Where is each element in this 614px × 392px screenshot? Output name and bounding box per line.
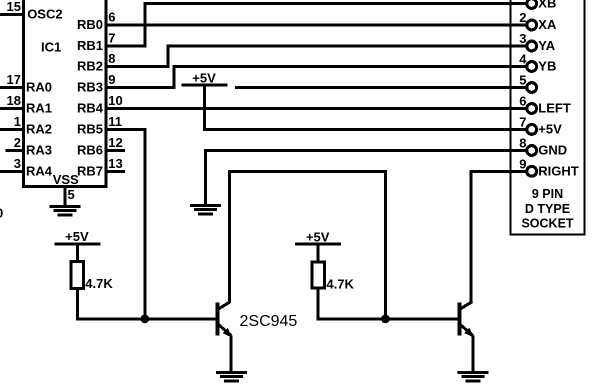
wire Q2 emitter lead xyxy=(471,336,474,371)
svg-text:RB3: RB3 xyxy=(77,80,103,95)
wire pin 17 RA0 xyxy=(0,86,24,89)
wire pin 1 RA2 xyxy=(0,128,24,131)
svg-text:+5V: +5V xyxy=(538,122,562,137)
power +5V top supply xyxy=(182,70,228,86)
svg-text:RB2: RB2 xyxy=(77,59,103,74)
ground VSS xyxy=(50,205,81,216)
wire Q2 base run xyxy=(317,317,458,320)
wire RB2 stub xyxy=(106,65,170,68)
svg-text:9 PIN: 9 PIN xyxy=(532,187,563,201)
svg-text:2SC945: 2SC945 xyxy=(240,313,298,330)
wire R2 bottom lead xyxy=(317,288,320,320)
svg-text:XA: XA xyxy=(538,17,557,32)
resistor R2 4.7K xyxy=(312,262,324,288)
svg-text:4.7K: 4.7K xyxy=(85,276,113,291)
wire to socket pin5 (open end) xyxy=(235,86,527,89)
svg-text:RB7: RB7 xyxy=(77,164,103,179)
wire RB1 to socket pin1 XB (top run) xyxy=(145,2,527,5)
svg-text:RA4: RA4 xyxy=(26,164,53,179)
ground mid xyxy=(190,204,221,215)
svg-text:D TYPE: D TYPE xyxy=(525,202,570,216)
wire RB3 stub xyxy=(106,86,176,89)
svg-text:RB6: RB6 xyxy=(77,143,103,158)
socket pin 3 circle xyxy=(527,41,537,51)
resistor R1 4.7K xyxy=(71,261,83,288)
svg-text:5: 5 xyxy=(519,73,526,88)
ground Q1 emitter xyxy=(216,371,247,382)
wire +5V drop to pin7 row xyxy=(203,85,206,131)
svg-text:4.7K: 4.7K xyxy=(326,276,354,291)
wire Q1 emitter lead xyxy=(230,336,233,371)
wire RB3 riser xyxy=(173,65,176,89)
wire RB3 raised run to pin4 YB xyxy=(173,65,528,68)
svg-text:RA3: RA3 xyxy=(26,143,52,158)
wire pin 18 RA1 xyxy=(0,107,24,110)
svg-text:RB5: RB5 xyxy=(77,122,103,137)
wire Q2 collector riser xyxy=(470,170,473,303)
wire Q1 collector run xyxy=(228,170,387,173)
svg-text:8: 8 xyxy=(108,51,115,66)
svg-text:VSS: VSS xyxy=(53,172,79,187)
svg-text:+5V: +5V xyxy=(192,70,216,85)
socket pin 8 circle xyxy=(527,146,537,156)
svg-text:9: 9 xyxy=(108,72,115,87)
node junction Q1 base xyxy=(141,315,150,324)
svg-text:2: 2 xyxy=(519,10,526,25)
svg-text:YA: YA xyxy=(538,38,555,53)
svg-text:YB: YB xyxy=(538,59,556,74)
wire RB5 drop to Q1 base node xyxy=(143,128,146,319)
transistor Q1 2SC945 xyxy=(216,302,233,338)
svg-text:12: 12 xyxy=(108,135,122,150)
transistor Q2 2SC945 xyxy=(457,302,474,338)
svg-text:15: 15 xyxy=(7,0,21,14)
svg-text:18: 18 xyxy=(7,93,21,108)
svg-text:RA0: RA0 xyxy=(26,80,52,95)
svg-text:7: 7 xyxy=(519,114,526,129)
svg-text:5: 5 xyxy=(68,187,75,202)
wire pin 2 RA3 xyxy=(6,149,24,152)
svg-text:SOCKET: SOCKET xyxy=(521,217,573,231)
wire +5V run to socket pin7 xyxy=(203,128,527,131)
svg-text:+5V: +5V xyxy=(65,229,89,244)
svg-text:XB: XB xyxy=(538,0,556,11)
svg-text:+5V: +5V xyxy=(306,230,330,245)
wire RB2 riser xyxy=(167,45,170,69)
svg-text:LEFT: LEFT xyxy=(538,101,571,116)
svg-text:RIGHT: RIGHT xyxy=(538,164,579,179)
wire GND run to socket pin8 xyxy=(204,149,527,152)
IC U1 (IC1 PIC) body xyxy=(24,0,107,186)
svg-text:10: 10 xyxy=(108,93,122,108)
svg-text:3: 3 xyxy=(14,156,21,171)
ground Q2 emitter xyxy=(458,371,489,382)
wire drop to Q2 base node xyxy=(384,170,387,319)
wire RB7 stub xyxy=(106,170,125,173)
wire Q2 collector to socket pin9 RIGHT xyxy=(470,170,527,173)
wire RB1 stub xyxy=(106,45,147,48)
power +5V supply R2 xyxy=(295,230,341,246)
svg-text:9: 9 xyxy=(519,156,526,171)
svg-text:IC1: IC1 xyxy=(41,40,61,55)
svg-text:RB0: RB0 xyxy=(77,17,103,32)
svg-text:4: 4 xyxy=(519,52,527,67)
svg-text:17: 17 xyxy=(7,72,21,87)
svg-text:RB1: RB1 xyxy=(77,38,103,53)
svg-text:0: 0 xyxy=(0,205,3,220)
wire RB1 riser xyxy=(144,2,147,48)
wire RB0 to socket pin2 XA xyxy=(106,24,527,27)
wire GND drop xyxy=(204,149,207,204)
power +5V supply R1 xyxy=(54,229,100,245)
socket pin 9 circle xyxy=(527,166,537,176)
svg-text:1: 1 xyxy=(14,114,21,129)
svg-text:OSC2: OSC2 xyxy=(27,6,62,21)
socket pin 7 circle xyxy=(527,124,537,134)
wire RB2 raised run to pin3 YA xyxy=(167,45,528,48)
socket pin 2 circle xyxy=(527,20,537,30)
wire R1 bottom lead xyxy=(76,289,79,321)
svg-text:RA1: RA1 xyxy=(26,101,52,116)
svg-text:8: 8 xyxy=(519,136,526,151)
connector 9 pin D type socket box xyxy=(510,0,584,235)
wire VSS pin 5 stub xyxy=(64,186,67,205)
socket pin 6 circle xyxy=(527,104,537,114)
wire Q1 base run xyxy=(76,317,216,320)
svg-text:RB4: RB4 xyxy=(77,101,104,116)
svg-text:11: 11 xyxy=(108,114,122,129)
svg-text:2: 2 xyxy=(14,135,21,150)
wire pin 3 RA4 xyxy=(0,170,24,173)
wire R1 top lead xyxy=(76,244,79,262)
socket pin 5 circle xyxy=(527,83,537,93)
node junction Q2 base xyxy=(381,315,390,324)
svg-text:RA2: RA2 xyxy=(26,122,52,137)
wire R2 top lead xyxy=(317,244,320,262)
svg-text:6: 6 xyxy=(519,94,526,109)
wire Q1 collector riser xyxy=(228,170,231,303)
wire RB4 to socket pin6 LEFT xyxy=(106,107,527,110)
svg-text:3: 3 xyxy=(519,31,526,46)
wire RB5 stub xyxy=(106,128,146,131)
svg-text:7: 7 xyxy=(108,31,115,46)
svg-text:GND: GND xyxy=(538,143,567,158)
svg-text:6: 6 xyxy=(108,10,115,25)
wire pin 15 OSC2 xyxy=(0,13,24,16)
socket pin 1 circle xyxy=(527,0,537,8)
wire RB6 stub xyxy=(106,149,125,152)
socket pin 4 circle xyxy=(527,62,537,72)
svg-text:13: 13 xyxy=(108,156,122,171)
